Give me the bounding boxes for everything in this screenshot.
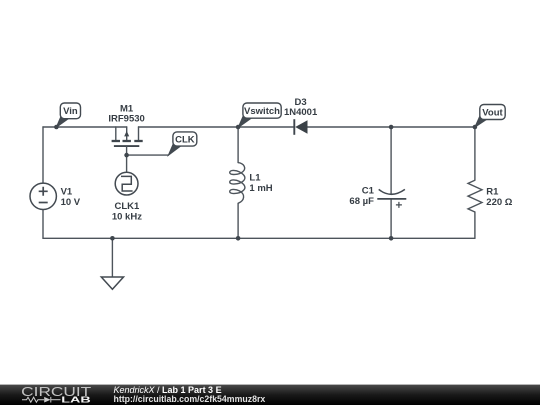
svg-text:LAB: LAB (61, 395, 91, 405)
M1 bulk contact bar (123, 140, 131, 142)
node flag Vswitch (238, 103, 281, 128)
transistor M1 PMOS IRF9530 (108, 103, 144, 155)
svg-text:68 µF: 68 µF (349, 196, 374, 207)
svg-text:1 mH: 1 mH (249, 183, 272, 194)
junction dot C1 bottom (389, 236, 394, 241)
M1 gate plate (114, 145, 139, 147)
svg-text:L1: L1 (249, 173, 261, 184)
wire R1 bottom lead (474, 212, 476, 238)
wire C1 top lead (390, 127, 392, 194)
ground (101, 238, 123, 289)
svg-text:1N4001: 1N4001 (284, 107, 318, 118)
V1 minus sign (39, 202, 48, 204)
wire bottom rail left (corner to ground node) (43, 237, 112, 239)
wire C1 bottom lead (390, 199, 392, 238)
R1 zigzag (468, 180, 482, 212)
junction dot L1 bottom (236, 236, 241, 241)
M1 bulk arrow (124, 131, 129, 137)
capacitor C1 (349, 186, 406, 208)
CircuitLab logo squiggle resistor+diode (22, 397, 61, 403)
CLK flag box (173, 132, 197, 146)
svg-text:IRF9530: IRF9530 (108, 114, 144, 125)
junction dot Vswitch node (236, 125, 241, 130)
junction dot Vin attach (54, 125, 59, 130)
C1 curved plate (379, 189, 405, 194)
svg-text:Vswitch: Vswitch (244, 106, 280, 117)
V1 body circle (30, 183, 56, 209)
ground stem (111, 238, 113, 277)
Vin flag box (60, 103, 80, 119)
CLK1 square wave glyph (121, 176, 133, 191)
svg-text:C1: C1 (362, 186, 375, 197)
wire top rail Vin to M1 source (43, 126, 127, 128)
footer bar (0, 385, 540, 405)
ground triangle (101, 277, 123, 289)
wire left branch bottom (V1 minus to bottom rail) (42, 210, 44, 239)
M1 gate stub (126, 146, 128, 155)
clock source CLK1 (112, 172, 142, 222)
voltage source V1 (30, 183, 81, 209)
svg-text:Vin: Vin (63, 106, 78, 117)
wire L1 top lead (237, 127, 239, 163)
Vswitch flag box (243, 103, 281, 118)
M1 source contact bar (112, 140, 120, 142)
wire bottom rail (L1 bottom to C1 bottom) (238, 237, 391, 239)
wire bottom rail right (C1 bottom to R1 corner) (391, 237, 475, 239)
M1 bulk stub (126, 127, 128, 141)
junction dot C1 top (389, 125, 394, 130)
D3 triangle (295, 120, 307, 134)
node flag Vin (56, 103, 80, 127)
V1 plus sign (39, 187, 48, 196)
L1 coil (230, 163, 245, 204)
D3 cathode bar (293, 119, 295, 135)
svg-text:http://circuitlab.com/c2fk54mm: http://circuitlab.com/c2fk54mmuz8rx (114, 394, 266, 404)
Vout flag tail (475, 115, 487, 127)
wire D3 anode to node C1 top (308, 126, 392, 128)
wire node C1 top to node Vout (391, 126, 475, 128)
Vin flag tail (56, 115, 68, 128)
junction dot Vout attach (473, 125, 478, 130)
svg-text:220 Ω: 220 Ω (486, 197, 512, 208)
M1 drain contact bar (134, 140, 142, 142)
wire bottom rail mid (ground node to L1 bottom) (112, 237, 238, 239)
svg-text:V1: V1 (61, 187, 73, 198)
svg-text:R1: R1 (486, 187, 499, 198)
svg-text:CLK: CLK (175, 134, 195, 145)
wire node Vswitch to D3 cathode (238, 126, 294, 128)
wire M1 drain to node Vswitch (139, 126, 239, 128)
C1 polarity plus (396, 202, 402, 208)
junction dot M1 gate node (124, 153, 129, 158)
wire M1 gate node down to CLK1 (126, 155, 128, 172)
wire left branch top (Vin corner to V1 plus) (42, 127, 44, 183)
svg-text:10 kHz: 10 kHz (112, 211, 142, 222)
node flag Vout (475, 105, 505, 128)
inductor L1 (230, 163, 273, 204)
svg-text:CLK1: CLK1 (114, 201, 140, 212)
M1 source stub (115, 127, 117, 140)
wire M1 gate node to CLK flag (127, 154, 169, 156)
resistor R1 (468, 180, 513, 212)
svg-text:10 V: 10 V (61, 197, 81, 208)
wire L1 bottom lead (237, 203, 239, 238)
Vout flag box (480, 105, 505, 120)
junction dot ground node (110, 236, 115, 241)
CLK1 body circle (115, 172, 138, 195)
diode D3 1N4001 (284, 97, 318, 135)
wire R1 top lead (474, 127, 476, 180)
C1 straight plate (377, 198, 406, 200)
CLK flag tail (168, 142, 181, 155)
Vswitch flag tail (238, 115, 251, 128)
node flag CLK (168, 132, 196, 155)
svg-text:Vout: Vout (482, 108, 503, 119)
M1 drain stub (138, 127, 140, 140)
